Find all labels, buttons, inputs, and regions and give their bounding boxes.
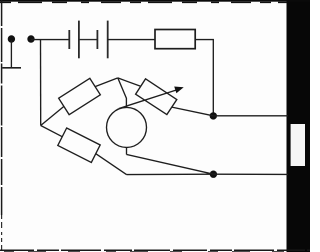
wire node B to galvanometer xyxy=(118,78,127,108)
wire R1 to node C xyxy=(195,40,213,116)
wire corner to node D xyxy=(127,173,214,175)
terminal T1 xyxy=(8,35,15,42)
wire R4 to node C xyxy=(172,107,213,116)
wire node C to right edge xyxy=(213,115,288,117)
wire node D to right edge xyxy=(213,173,288,175)
wire node B to R4 xyxy=(118,78,141,86)
wire node A to R2 xyxy=(41,106,64,125)
resistor R2 xyxy=(59,78,101,114)
wire R2 to node B xyxy=(95,78,118,87)
decorative frame (no labels) xyxy=(287,0,311,252)
node D xyxy=(210,171,217,178)
potentiometer R4 xyxy=(136,79,177,115)
wire stub to node D xyxy=(127,155,214,175)
terminal T2 xyxy=(27,35,34,42)
resistor R3 xyxy=(58,128,100,162)
resistor R1 xyxy=(155,30,195,49)
wire T2 to battery xyxy=(31,39,69,41)
battery B1 xyxy=(69,21,107,59)
wire battery to R1 xyxy=(108,39,155,41)
ground xyxy=(2,41,21,68)
wire galvanometer bottom stub xyxy=(126,147,128,154)
wiper arrow of R4 xyxy=(119,87,184,109)
wire down to node A xyxy=(40,40,42,126)
galvanometer G1 xyxy=(107,107,147,147)
wire node A to R3 xyxy=(41,126,63,137)
node C xyxy=(210,112,217,119)
wire R3 to corner xyxy=(96,154,127,175)
